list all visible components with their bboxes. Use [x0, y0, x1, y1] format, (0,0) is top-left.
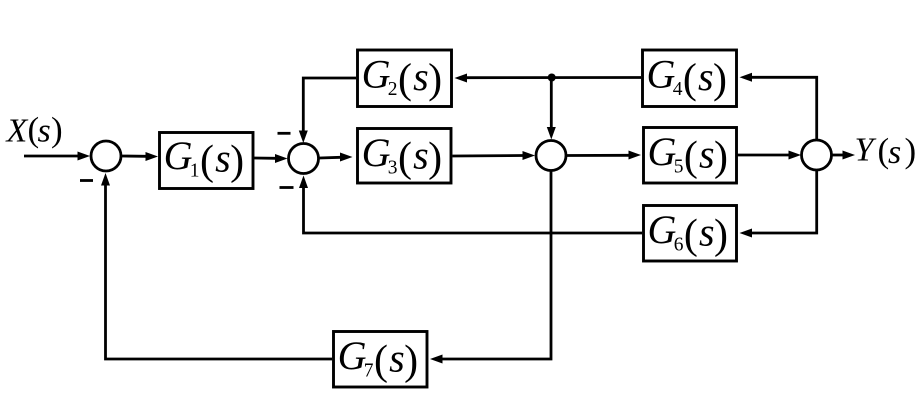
svg-text:s: s: [699, 131, 715, 176]
svg-text:s: s: [699, 209, 715, 254]
junction dot on top line: [548, 74, 556, 82]
minus sign at S2 upper-left: [278, 132, 291, 135]
svg-text:G: G: [648, 129, 677, 174]
svg-text:1: 1: [190, 161, 200, 182]
summing junction S4: [802, 140, 832, 170]
wire S3 bottom down and left to G7 input: [430, 172, 551, 364]
block G2: [358, 50, 452, 107]
svg-text:G: G: [362, 130, 391, 175]
wire G6 output left and up to S2 bottom (feedback): [299, 176, 642, 234]
wire G3 to summing junction S3: [453, 151, 536, 160]
svg-text:5: 5: [674, 157, 684, 178]
svg-text:(: (: [398, 57, 412, 103]
summing junction S3: [536, 141, 566, 171]
svg-text:): ): [428, 135, 442, 181]
svg-text:): ): [428, 57, 442, 103]
wire S1 to G1: [121, 152, 158, 161]
svg-text:s: s: [38, 113, 51, 150]
svg-text:): ): [51, 110, 63, 149]
svg-text:s: s: [389, 335, 405, 380]
svg-text:): ): [404, 338, 418, 384]
svg-text:): ): [230, 138, 244, 184]
wire G2 output to S2 top (feedback): [299, 78, 356, 143]
node Y(s) output label: [855, 131, 917, 171]
block G1: [160, 133, 254, 189]
svg-text:s: s: [215, 135, 231, 180]
block G5: [644, 128, 737, 184]
wire S2 to G3: [320, 153, 353, 162]
wire G4 output to G2 input (top line): [455, 74, 642, 83]
svg-text:s: s: [888, 134, 901, 171]
wire junction dot down to S3 top: [547, 78, 556, 140]
minus sign at S2 lower-left: [280, 186, 294, 189]
svg-text:(: (: [684, 134, 698, 180]
wire G7 output left and up to S1 bottom (feedback): [101, 173, 332, 359]
svg-text:(: (: [200, 138, 214, 184]
wire G1 to summing junction S2: [254, 154, 288, 163]
svg-text:3: 3: [388, 158, 398, 179]
svg-text:X: X: [5, 113, 29, 150]
block G6: [644, 206, 737, 262]
svg-text:6: 6: [674, 235, 684, 256]
wire S4 to output Y: [833, 151, 856, 160]
svg-text:(: (: [398, 135, 412, 181]
svg-text:s: s: [413, 132, 429, 177]
svg-text:4: 4: [673, 79, 683, 100]
minus sign at S1 lower-left: [80, 179, 93, 182]
summing junction S2: [289, 144, 319, 174]
block G4: [643, 50, 737, 107]
svg-text:G: G: [164, 133, 193, 178]
svg-text:G: G: [362, 52, 391, 97]
svg-text:s: s: [698, 54, 714, 99]
svg-text:): ): [905, 131, 917, 170]
summing junction S1: [91, 141, 121, 171]
node X(s) input label: [5, 110, 63, 150]
wire S4 bottom down and left to G6 input: [740, 171, 817, 238]
svg-text:7: 7: [364, 361, 374, 382]
svg-text:(: (: [683, 57, 697, 103]
svg-text:G: G: [648, 207, 677, 252]
svg-text:): ): [714, 134, 728, 180]
wire input X to summing junction S1: [24, 152, 90, 161]
svg-text:(: (: [374, 338, 388, 384]
wire S4 top up and left to G4 input: [740, 73, 817, 139]
wire S3 to G5: [567, 151, 641, 160]
svg-text:Y: Y: [855, 132, 877, 169]
svg-text:): ): [714, 212, 728, 258]
svg-text:(: (: [684, 212, 698, 258]
svg-text:G: G: [647, 52, 676, 97]
block G7: [334, 332, 428, 388]
svg-text:G: G: [338, 333, 367, 378]
svg-text:2: 2: [388, 79, 398, 100]
block G3: [358, 129, 452, 184]
svg-text:): ): [713, 57, 727, 103]
svg-text:s: s: [413, 54, 429, 99]
wire G5 to summing junction S4: [738, 151, 802, 160]
